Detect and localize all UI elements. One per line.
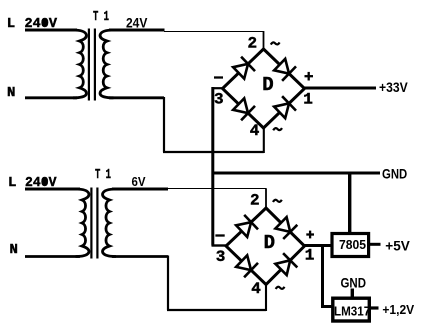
svg-text:D: D (262, 74, 273, 96)
svg-text:1: 1 (305, 247, 315, 265)
wire N to transformer 2 primary (25, 255, 80, 258)
wire bridge 2 pin 3 stub (212, 244, 228, 246)
svg-text:24V: 24V (126, 14, 148, 30)
transformer T1 (2) primary winding (76, 189, 89, 257)
wire branch down to LM317 input (321, 245, 324, 307)
wire elbow to LM317 input (321, 305, 332, 308)
wire down into bridge 2 pin 2 (265, 189, 267, 210)
regulator 7805 box (332, 234, 369, 257)
diode D1a (bridge 1, - to ~ top) (233, 64, 248, 79)
wire N to transformer 1 primary (25, 96, 77, 99)
svg-text:2: 2 (248, 35, 258, 53)
label ~ top (bridge 1) (271, 42, 280, 44)
svg-text:+33V: +33V (379, 80, 408, 95)
svg-text:3: 3 (214, 91, 224, 109)
wire 24V secondary top (thick) (109, 29, 165, 32)
svg-text:GND: GND (382, 166, 407, 181)
diode D1b (bridge 1, ~ top to +) (274, 59, 289, 74)
wire L to transformer 1 primary (25, 29, 77, 32)
wire bridge 2 pin 4 down (265, 284, 267, 311)
wire elbow down at x=168 (167, 256, 169, 311)
wire along y=310 to bridge 2 pin 4 (167, 309, 266, 311)
diode D2a (bridge 2, - to ~ top) (236, 222, 251, 237)
transformer T1 core (88, 29, 90, 101)
svg-text:T 1: T 1 (93, 9, 109, 25)
bridge rectifier D (top) diamond (223, 49, 305, 128)
svg-text:+1,2V: +1,2V (382, 302, 414, 317)
wire 24V secondary top (thin) to bridge 1 (164, 31, 264, 33)
wire elbow down at x=164 (163, 97, 165, 152)
svg-text:2: 2 (250, 192, 260, 210)
transformer T1 (2) core (90, 188, 92, 259)
wire GND label to LM317 top (351, 289, 354, 299)
GND rail (212, 172, 381, 175)
label ~ bottom (bridge 1) (273, 128, 282, 130)
transformer T1 (2) secondary winding (103, 189, 116, 257)
svg-text:6V: 6V (132, 174, 146, 189)
label ~ top (bridge 2) (273, 200, 282, 202)
svg-text:3: 3 (216, 248, 226, 266)
wire GND rail branch down to 7805 (348, 173, 351, 234)
wire secondary bottom (thick) (109, 96, 164, 99)
wire LM317 output (370, 306, 379, 309)
diode D2b (bridge 2, ~ top to +) (275, 217, 290, 232)
wire along y=152 to bridge 1 pin 4 (163, 151, 264, 153)
svg-text:N: N (10, 242, 18, 258)
wire 7805 output (369, 243, 381, 246)
regulator LM317 box (333, 298, 370, 321)
svg-text:GND: GND (341, 275, 367, 290)
label - minus (bridge 2) (215, 234, 224, 236)
svg-text:T 1: T 1 (95, 167, 111, 183)
wire vertical bus pin 3 to GND rail and bridge 2 (211, 87, 214, 246)
svg-text:4: 4 (251, 280, 261, 298)
bridge rectifier D (bottom) diamond (226, 208, 305, 285)
label - minus (bridge 1) (214, 76, 223, 78)
svg-text:D: D (264, 232, 275, 254)
label + plus (bridge 2) (306, 233, 314, 235)
diode D2c (bridge 2, - to ~ bottom) (236, 255, 251, 270)
diode D1c (bridge 1, - to ~ bottom) (233, 98, 248, 113)
svg-text:LM317: LM317 (334, 303, 370, 318)
wire bridge 1 + output to +33V (304, 87, 376, 90)
wire bridge 1 pin 3 stub (212, 87, 224, 89)
svg-text:N: N (7, 85, 15, 101)
svg-text:L: L (7, 16, 15, 32)
wire 6V secondary top (thick) (112, 188, 168, 191)
transformer T1 primary winding (73, 30, 86, 98)
wire 6V secondary top (thin) to bridge 2 (168, 188, 267, 190)
wire secondary 2 bottom (thick) (112, 255, 168, 258)
svg-text:1: 1 (303, 91, 313, 109)
svg-text:L: L (8, 175, 16, 191)
wire L to transformer 2 primary (25, 188, 80, 191)
svg-text:7805: 7805 (339, 237, 366, 252)
wire down into bridge 1 pin 2 (263, 31, 265, 50)
transformer T1 secondary winding (100, 30, 113, 98)
svg-text:4: 4 (250, 122, 260, 140)
diode D2d (bridge 2, ~ bottom to +) (275, 260, 290, 275)
wire bridge 2 + output to 7805 input (304, 244, 331, 247)
wire bridge 1 pin 4 down (263, 127, 265, 153)
label + plus (bridge 1) (305, 75, 314, 77)
svg-text:+5V: +5V (385, 239, 410, 254)
label ~ bottom (bridge 2) (276, 287, 285, 289)
diode D1d (bridge 1, ~ bottom to +) (274, 103, 289, 118)
